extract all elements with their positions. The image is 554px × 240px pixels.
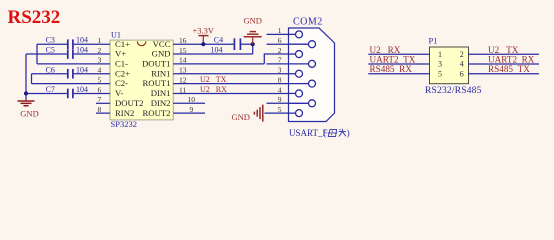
svg-text:104: 104 xyxy=(76,36,88,45)
svg-text:RIN1: RIN1 xyxy=(151,68,170,78)
svg-text:8: 8 xyxy=(278,75,282,84)
svg-text:GND: GND xyxy=(232,112,250,122)
svg-text:DIN1: DIN1 xyxy=(151,88,171,98)
svg-text:UART2 RX: UART2 RX xyxy=(488,55,535,65)
svg-text:C5: C5 xyxy=(46,46,55,55)
svg-text:GND: GND xyxy=(152,49,171,59)
svg-text:DOUT1: DOUT1 xyxy=(142,59,170,69)
svg-text:C2-: C2- xyxy=(115,78,128,88)
svg-text:U2 TX: U2 TX xyxy=(200,75,227,84)
svg-text:104: 104 xyxy=(76,46,88,55)
svg-text:5: 5 xyxy=(438,69,442,78)
svg-text:ROUT2: ROUT2 xyxy=(143,108,171,118)
svg-text:6: 6 xyxy=(278,36,282,45)
svg-text:RS232/RS485: RS232/RS485 xyxy=(425,86,482,96)
svg-text:4: 4 xyxy=(460,60,464,69)
svg-text:RS232: RS232 xyxy=(8,7,61,28)
svg-text:DIN2: DIN2 xyxy=(151,98,171,108)
svg-text:104: 104 xyxy=(211,46,223,55)
svg-text:7: 7 xyxy=(278,56,282,65)
svg-text:DOUT2: DOUT2 xyxy=(115,98,143,108)
svg-text:C1-: C1- xyxy=(115,59,128,69)
svg-text:USART_F: USART_F xyxy=(289,128,327,138)
svg-text:RS485 TX: RS485 TX xyxy=(488,64,530,74)
svg-text:V-: V- xyxy=(115,88,123,98)
svg-text:GND: GND xyxy=(244,16,262,26)
svg-text:4: 4 xyxy=(278,85,282,94)
svg-text:1: 1 xyxy=(438,50,442,59)
svg-text:C2+: C2+ xyxy=(115,68,130,78)
svg-text:C6: C6 xyxy=(46,65,55,74)
svg-text:2: 2 xyxy=(278,46,282,55)
svg-text:6: 6 xyxy=(460,69,464,78)
svg-text:9: 9 xyxy=(278,95,282,104)
svg-text:C3: C3 xyxy=(46,36,55,45)
svg-text:3: 3 xyxy=(278,66,282,75)
svg-text:C4: C4 xyxy=(214,36,223,45)
svg-text:2: 2 xyxy=(460,50,464,59)
svg-text:104: 104 xyxy=(76,85,88,94)
svg-text:C1+: C1+ xyxy=(115,39,130,49)
svg-text:RIN2: RIN2 xyxy=(115,108,134,118)
svg-text:U2 RX: U2 RX xyxy=(370,45,401,55)
svg-text:SP3232: SP3232 xyxy=(111,119,137,129)
svg-text:1: 1 xyxy=(278,26,282,35)
svg-text:VCC: VCC xyxy=(153,39,171,49)
svg-text:): ) xyxy=(347,128,350,138)
svg-text:5: 5 xyxy=(278,105,282,114)
svg-text:(: ( xyxy=(323,128,326,138)
svg-text:COM2: COM2 xyxy=(293,17,323,28)
svg-text:UART2 TX: UART2 TX xyxy=(370,55,416,65)
svg-text:RS485 RX: RS485 RX xyxy=(370,64,413,74)
svg-text:3: 3 xyxy=(438,60,442,69)
svg-text:104: 104 xyxy=(76,65,88,74)
svg-text:U2 RX: U2 RX xyxy=(200,85,227,94)
svg-text:GND: GND xyxy=(20,108,38,118)
svg-text:ROUT1: ROUT1 xyxy=(143,78,171,88)
svg-text:C7: C7 xyxy=(46,85,55,94)
svg-text:V+: V+ xyxy=(115,49,126,59)
svg-text:U2 TX: U2 TX xyxy=(488,45,519,55)
svg-text:P1: P1 xyxy=(429,36,438,46)
svg-text:+3.3V: +3.3V xyxy=(193,26,215,36)
